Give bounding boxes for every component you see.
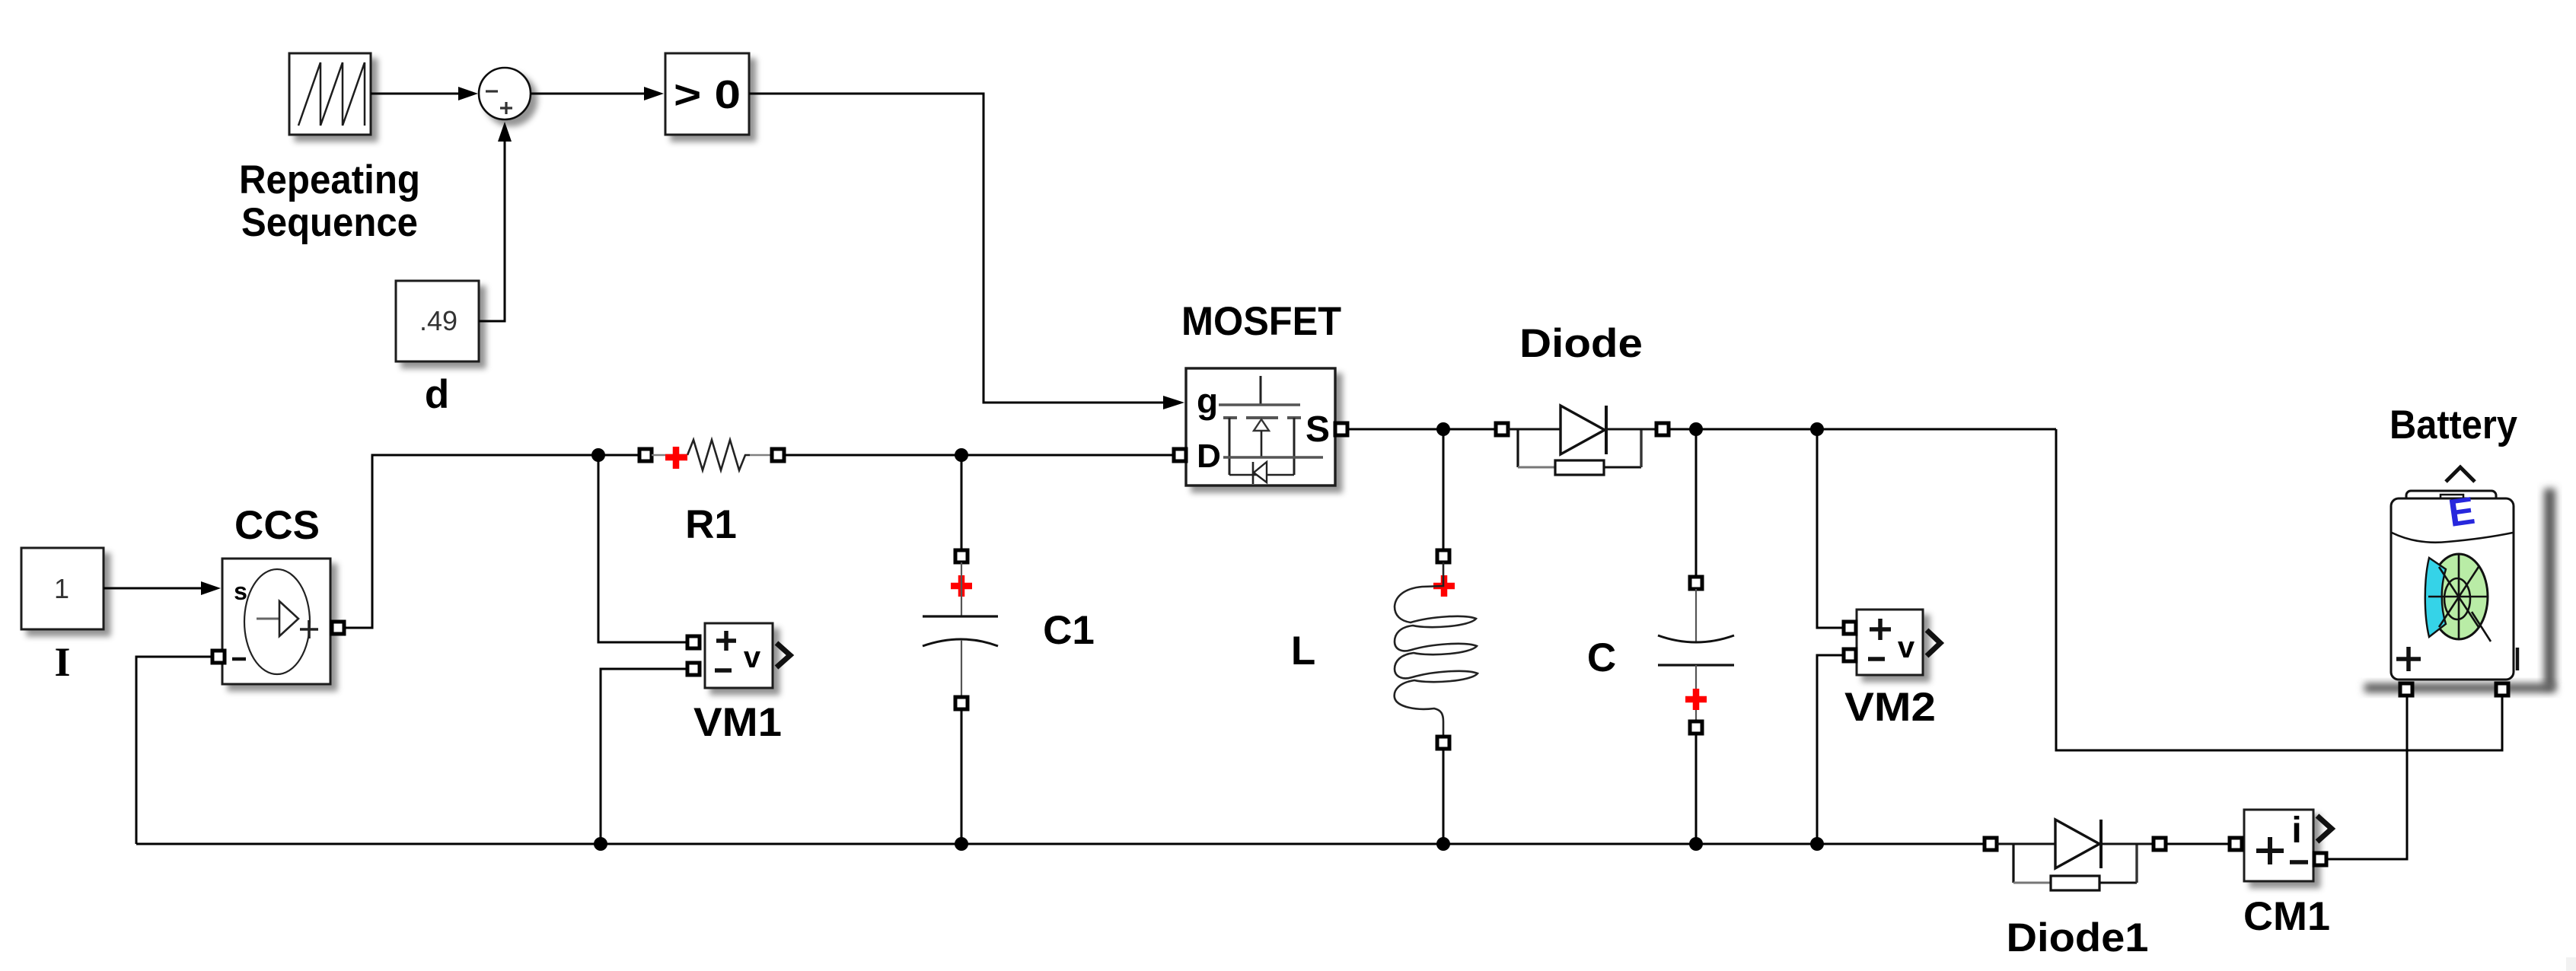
svg-text:I: I [54,639,70,685]
wire junction down to VM2 plus [1817,429,1845,628]
voltage measurement VM2 [1857,610,1940,675]
port VM2 plus [1844,622,1856,634]
port VM1 plus [687,636,700,648]
node junction mid rail at VM1 [591,448,605,462]
port CCS plus [332,622,344,634]
wire junction down to VM1 plus [598,455,693,642]
controlled current source CCS U1 [222,559,330,684]
diode D1 (freewheeling) [1496,406,1669,475]
wire capacitor C down to bottom rail [1695,734,1698,844]
svg-text:Battery: Battery [2389,403,2517,447]
svg-text:C: C [1587,635,1616,680]
port CM1 plus [2230,838,2242,850]
svg-text:d: d [425,372,449,417]
port VM1 minus [687,663,700,675]
node junction bottom rail at VM2 [1810,837,1824,851]
wire C1 down to bottom rail [961,709,963,844]
constant block .49 [396,281,479,361]
wire R1 to MOSFET D [784,454,1175,457]
capacitor C1 [923,550,998,709]
svg-text:Diode: Diode [1519,321,1643,366]
svg-text:VM1: VM1 [693,700,782,745]
current measurement CM1 [2244,810,2332,881]
port MOSFET D [1174,449,1186,461]
svg-text:C1: C1 [1043,608,1095,653]
port VM2 minus [1844,649,1856,661]
svg-text:Repeating: Repeating [239,158,420,202]
voltage measurement VM1 [705,623,790,688]
bottom rail wire [136,843,1986,845]
svg-text:CM1: CM1 [2243,894,2330,939]
node junction bottom rail at C1 [955,837,968,851]
svg-text:i: i [2291,810,2301,851]
node junction bottom rail at VM1 [594,837,607,851]
svg-text:CCS: CCS [234,503,320,548]
node junction bottom rail at L [1436,837,1450,851]
label Repeating Sequence [239,158,420,245]
port CM1 minus [2314,853,2326,865]
wire MOSFET S to diode [1347,428,1497,431]
svg-text:> 0: > 0 [674,73,741,117]
wire Diode1 to CM1 plus [2166,843,2231,845]
svg-text:MOSFET: MOSFET [1181,299,1341,344]
wire inductor down to bottom rail [1443,749,1445,844]
svg-text:g: g [1197,381,1218,421]
node junction top rail at VM2 [1810,422,1824,436]
node junction top rail at C [1689,422,1703,436]
sum block (+/-) [479,68,531,119]
wire battery plus down to CM1 minus [2328,696,2407,859]
wire CCS plus up to mid rail [344,455,641,628]
compare-to-zero block > 0 [665,53,749,135]
battery block [2364,467,2555,692]
svg-text:.49: .49 [419,305,457,336]
wire VM1 minus down to bottom rail [601,669,693,844]
svg-text:v: v [1898,631,1915,664]
svg-text:Sequence: Sequence [241,200,418,245]
svg-text:Diode1: Diode1 [2007,915,2149,960]
svg-text:L: L [1291,629,1315,673]
svg-text:s: s [234,578,247,605]
inductor L [1395,550,1478,749]
svg-text:v: v [744,641,761,674]
wire CCS minus to lower-left corner down to bottom rail [136,657,212,844]
wire constant d to sum - input [479,142,505,321]
capacitor C [1658,577,1734,734]
MOSFET block Q1 [1186,368,1335,485]
diode Diode1 [1985,820,2166,890]
svg-text:1: 1 [54,573,69,604]
wire constant 1 to CCS s input [104,587,202,590]
wire VM2 minus down to bottom rail [1817,655,1845,844]
svg-text:R1: R1 [685,502,737,547]
capacitor C1 branch wire upper [961,455,963,552]
scrollbar corner artifact [2566,957,2576,971]
port CCS minus [212,651,225,663]
wire junction down to capacitor C [1695,429,1698,578]
node junction bottom rail at C [1689,837,1703,851]
wire compare block to MOSFET gate [749,94,1165,403]
port MOSFET S [1335,423,1347,435]
port battery minus [2496,683,2508,696]
node junction mid rail at C1 [955,448,968,462]
svg-text:D: D [1197,438,1221,475]
port battery plus [2400,683,2412,696]
wire top rail corner down and right to battery minus [2056,429,2502,750]
repeating sequence source block [289,53,371,135]
svg-text:VM2: VM2 [1844,685,1936,730]
constant block 1 [21,548,104,629]
node junction top rail at L [1436,422,1450,436]
svg-text:S: S [1306,409,1330,450]
wire repeating sequence to sum [371,93,460,95]
wire sum to compare block [531,93,646,95]
wire diode to battery branch corner [1669,428,2056,431]
resistor R1 [639,440,784,470]
wire junction down to inductor [1443,429,1445,552]
